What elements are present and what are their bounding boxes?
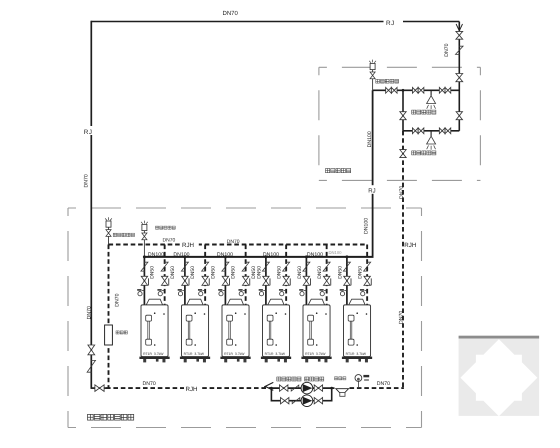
wire RJ left riser DN70 bbox=[90, 21, 92, 388]
valve on return riser in block bbox=[400, 150, 406, 158]
svg-text:DN100: DN100 bbox=[364, 218, 370, 234]
svg-text:RT1R: RT1R bbox=[184, 352, 193, 356]
filter (strainer) on return drop bbox=[105, 325, 113, 345]
valve at bottom corner bbox=[95, 385, 104, 392]
svg-text:RT1R: RT1R bbox=[346, 352, 355, 356]
drain tick pipe 4 bbox=[208, 278, 210, 285]
drain tick pipe 11 bbox=[350, 278, 352, 285]
wire floor tap drop bbox=[402, 90, 404, 131]
svg-text:RJ: RJ bbox=[386, 20, 395, 27]
check valve on right drop bbox=[456, 46, 464, 54]
valve pair H2 a bbox=[412, 128, 418, 134]
wire right drop to floor block bbox=[458, 22, 460, 131]
wire bottom return to riser (dashed) bbox=[350, 387, 404, 389]
valve pipe 11 bbox=[344, 276, 350, 285]
valve on left riser bbox=[88, 345, 95, 355]
valve on right drop upper bbox=[456, 31, 463, 39]
valve pipe 3 bbox=[182, 276, 188, 285]
node manifold joint 6 bbox=[345, 255, 348, 258]
svg-text:3.7kW: 3.7kW bbox=[235, 352, 245, 356]
svg-text:DN70: DN70 bbox=[115, 293, 121, 306]
valve pipe 1 bbox=[141, 276, 147, 285]
valve pair H1 b bbox=[412, 87, 418, 93]
svg-text:DN70: DN70 bbox=[398, 311, 404, 324]
svg-text:3.7kW: 3.7kW bbox=[356, 352, 366, 356]
gauge pipe 7 bbox=[263, 289, 266, 291]
gauge pipe 10 bbox=[324, 289, 327, 291]
svg-text:DN50: DN50 bbox=[256, 266, 262, 279]
water heater 1 bbox=[139, 299, 169, 362]
gauge pipe 11 bbox=[344, 289, 347, 291]
drain tick pipe 12 bbox=[370, 278, 372, 285]
valve on right drop mid bbox=[456, 112, 462, 120]
valve bypass a bbox=[281, 398, 289, 404]
drain tick pipe 1 bbox=[148, 278, 150, 285]
valve pipe 8 bbox=[283, 276, 289, 285]
wire heater 5 return pipe (dashed) bbox=[326, 245, 328, 305]
svg-text:RT1R: RT1R bbox=[224, 352, 233, 356]
valve pipe 12 bbox=[364, 276, 370, 285]
svg-text:DN100: DN100 bbox=[328, 250, 342, 255]
wire RJH manifold (dashed) bbox=[109, 244, 368, 246]
wire heater 4 return pipe (dashed) bbox=[285, 245, 287, 305]
gauge pipe 1 bbox=[142, 289, 145, 291]
wire heater 1 outlet pipe bbox=[143, 257, 145, 305]
wire floor branch H1 bbox=[373, 89, 460, 91]
svg-text:RJH: RJH bbox=[186, 386, 198, 393]
pump P1 bbox=[301, 382, 313, 394]
valve pair H1 c bbox=[439, 87, 445, 93]
wire heater 6 outlet pipe bbox=[346, 257, 348, 305]
svg-text:DN70: DN70 bbox=[377, 381, 390, 387]
valve pipe 2 bbox=[161, 276, 167, 285]
node pump tee right bbox=[330, 387, 333, 390]
drain tick pipe 3 bbox=[188, 278, 190, 285]
gauge pipe 6 bbox=[243, 289, 246, 291]
svg-text:3.7kW: 3.7kW bbox=[154, 352, 164, 356]
valve pump line b bbox=[314, 385, 322, 391]
check valve pipe 10 bbox=[323, 262, 330, 271]
check valve pump line a bbox=[291, 385, 299, 391]
wire heater 4 outlet pipe bbox=[265, 257, 267, 305]
wire RJ manifold bbox=[144, 256, 373, 258]
svg-text:DN100: DN100 bbox=[173, 252, 189, 258]
valve bypass b bbox=[314, 398, 322, 404]
wire bottom return RJH (dashed) bbox=[106, 387, 271, 389]
node RJH label on manifold bbox=[181, 240, 199, 247]
wire pump header bbox=[271, 387, 334, 389]
node pump tee left bbox=[270, 387, 273, 390]
wire heater 2 outlet pipe bbox=[184, 257, 186, 305]
valve pipe 6 bbox=[242, 276, 248, 285]
node manifold joint 2 bbox=[183, 255, 186, 258]
svg-text:DN50: DN50 bbox=[277, 266, 283, 279]
svg-text:DN70: DN70 bbox=[87, 306, 93, 319]
svg-text:RJ: RJ bbox=[368, 187, 375, 194]
label filter bbox=[116, 331, 127, 334]
wire floor branch H2 bbox=[403, 130, 459, 132]
node RJ label on left riser bbox=[83, 126, 99, 135]
drain tick pipe 6 bbox=[249, 278, 251, 285]
check valve pipe 1 bbox=[141, 262, 148, 271]
watermark logo square bbox=[459, 336, 539, 417]
drain tick pipe 7 bbox=[269, 278, 271, 285]
svg-text:3.7kW: 3.7kW bbox=[316, 352, 326, 356]
check valve bypass bbox=[292, 398, 300, 404]
svg-text:DN100: DN100 bbox=[367, 131, 373, 147]
water heater 2 bbox=[180, 299, 210, 362]
svg-text:3.7kW: 3.7kW bbox=[194, 352, 204, 356]
wire left return drop (dashed) bbox=[108, 245, 110, 389]
valve pair H2 b bbox=[439, 128, 445, 134]
svg-text:DN70: DN70 bbox=[223, 10, 239, 17]
air vent on floor branch bbox=[369, 60, 376, 63]
water heater 5 bbox=[301, 299, 331, 362]
label air vent 1 bbox=[113, 233, 134, 236]
svg-text:DN50: DN50 bbox=[358, 266, 364, 279]
flow arrow left bbox=[265, 382, 273, 390]
valve pair H1 a bbox=[386, 87, 392, 93]
wire heater 5 outlet pipe bbox=[305, 257, 307, 305]
label circulation pumps bbox=[277, 377, 324, 381]
svg-text:DN50: DN50 bbox=[231, 266, 237, 279]
flow arrow down bbox=[456, 24, 462, 31]
label floor block bbox=[326, 169, 351, 173]
node RJ label on supply riser bbox=[367, 185, 380, 194]
svg-text:DN50: DN50 bbox=[337, 266, 343, 279]
label air vent 3 bbox=[376, 79, 399, 83]
wire heater 3 outlet pipe bbox=[224, 257, 226, 305]
water heater 6 bbox=[342, 299, 372, 362]
drain tick pipe 10 bbox=[330, 278, 332, 285]
svg-text:RJH: RJH bbox=[404, 242, 416, 249]
Y strainer bbox=[336, 389, 349, 396]
node RJ label on top line bbox=[384, 17, 404, 26]
wire RJH return riser DN70 (dashed) bbox=[402, 131, 404, 388]
svg-text:DN50: DN50 bbox=[170, 266, 176, 279]
check valve pipe 9 bbox=[303, 262, 310, 271]
svg-text:DN50: DN50 bbox=[317, 266, 323, 279]
pressure gauge bbox=[355, 375, 362, 382]
svg-text:DN70: DN70 bbox=[444, 43, 450, 56]
label equipment room bbox=[88, 414, 134, 420]
wire RJ riser DN100 bbox=[372, 90, 374, 257]
node manifold joint 1 bbox=[143, 255, 146, 258]
svg-text:DN70: DN70 bbox=[143, 381, 156, 387]
drain tick pipe 8 bbox=[289, 278, 291, 285]
svg-text:DN50: DN50 bbox=[150, 266, 156, 279]
valve pipe 9 bbox=[303, 276, 309, 285]
valve pipe 10 bbox=[323, 276, 329, 285]
gauge pipe 5 bbox=[223, 289, 226, 291]
svg-text:DN70: DN70 bbox=[163, 238, 176, 244]
check valve pipe 5 bbox=[222, 262, 229, 271]
pump P2 bbox=[301, 395, 313, 407]
node manifold joint 3 bbox=[224, 255, 227, 258]
check valve pipe 8 bbox=[283, 262, 290, 271]
water heater 3 bbox=[220, 299, 250, 362]
svg-text:RT1R: RT1R bbox=[143, 352, 152, 356]
check valve pipe 7 bbox=[262, 262, 269, 271]
svg-text:DN100: DN100 bbox=[148, 252, 164, 258]
gauge pipe 8 bbox=[284, 289, 287, 291]
svg-text:DN70: DN70 bbox=[399, 186, 405, 199]
check valve pipe 6 bbox=[242, 262, 249, 271]
svg-text:DN70: DN70 bbox=[84, 174, 90, 187]
label hot water tap 1 bbox=[412, 110, 436, 114]
check valve pipe 12 bbox=[364, 262, 371, 271]
node tee H1 bbox=[402, 89, 405, 92]
drain tick pipe 9 bbox=[310, 278, 312, 285]
svg-text:DN50: DN50 bbox=[210, 266, 216, 279]
water heater 4 bbox=[261, 299, 291, 362]
wire RJ top supply line bbox=[91, 21, 459, 23]
drain tick pipe 5 bbox=[229, 278, 231, 285]
wire heater 2 return pipe (dashed) bbox=[204, 245, 206, 305]
svg-text:DN70: DN70 bbox=[227, 239, 240, 245]
node RJH label on bottom line bbox=[184, 384, 201, 392]
tiny instrument note bbox=[363, 375, 369, 377]
valve on right drop at block bbox=[456, 74, 463, 82]
gauge pipe 2 bbox=[162, 289, 165, 291]
node manifold joint 5 bbox=[305, 255, 308, 258]
svg-text:RT1R: RT1R bbox=[265, 352, 274, 356]
wire bottom return RJH solid stub bbox=[91, 387, 107, 389]
check valve pipe 11 bbox=[343, 262, 350, 271]
svg-text:RJH: RJH bbox=[182, 242, 194, 249]
check valve pipe 4 bbox=[202, 262, 209, 271]
basement equipment room boundary (gray dashed) bbox=[68, 208, 422, 428]
valve pipe 4 bbox=[202, 276, 208, 285]
svg-text:3.7kW: 3.7kW bbox=[275, 352, 285, 356]
svg-text:DN50: DN50 bbox=[190, 266, 196, 279]
hot-water floor block boundary (gray dashed) bbox=[319, 67, 481, 180]
svg-text:DN50: DN50 bbox=[297, 266, 303, 279]
wire pump bypass branch bbox=[271, 388, 331, 401]
drain tick pipe 2 bbox=[168, 278, 170, 285]
label strainer bbox=[335, 377, 346, 380]
hot water tap 2 bbox=[430, 131, 432, 136]
node manifold joint 4 bbox=[264, 255, 267, 258]
check valve pipe 3 bbox=[181, 262, 188, 271]
svg-text:RT1R: RT1R bbox=[305, 352, 314, 356]
valve pump line a bbox=[280, 385, 288, 391]
air vent on RJ manifold bbox=[141, 221, 148, 224]
valve on tap drop bbox=[400, 112, 406, 120]
valve pipe 5 bbox=[222, 276, 228, 285]
gauge pipe 12 bbox=[365, 289, 368, 291]
svg-text:RJ: RJ bbox=[84, 129, 93, 136]
label hot water tap 2 bbox=[412, 151, 436, 155]
gauge pipe 4 bbox=[203, 289, 206, 291]
valve pipe 7 bbox=[263, 276, 269, 285]
air vent on RJH drop bbox=[105, 217, 112, 220]
hot water tap 1 bbox=[430, 90, 432, 95]
gauge pipe 3 bbox=[182, 289, 185, 291]
svg-text:DN100: DN100 bbox=[307, 252, 323, 258]
wire heater 3 return pipe (dashed) bbox=[245, 245, 247, 305]
wire heater 6 return pipe (dashed) bbox=[366, 245, 368, 305]
gauge pipe 9 bbox=[304, 289, 307, 291]
check valve pipe 2 bbox=[161, 262, 168, 271]
check valve on left riser bbox=[87, 360, 95, 372]
label air vent 2 bbox=[156, 226, 176, 229]
wire heater 1 return pipe (dashed) bbox=[164, 245, 166, 305]
